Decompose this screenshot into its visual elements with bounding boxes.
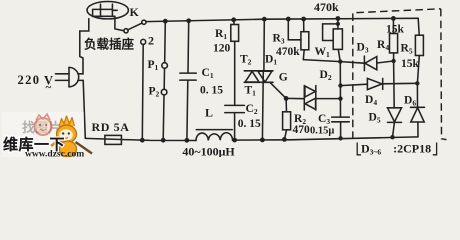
svg-text:0. 15: 0. 15 xyxy=(200,85,223,97)
svg-text:40~100μH: 40~100μH xyxy=(182,145,235,158)
svg-text:负载插座: 负载插座 xyxy=(84,37,135,52)
svg-text:0.15μ: 0.15μ xyxy=(310,126,334,137)
svg-text:470k: 470k xyxy=(314,0,339,14)
svg-text:470: 470 xyxy=(293,124,311,136)
svg-text:G: G xyxy=(279,72,288,84)
svg-text:0. 15: 0. 15 xyxy=(238,118,261,130)
svg-text:220: 220 xyxy=(18,73,41,87)
svg-text:2: 2 xyxy=(148,34,154,48)
svg-text:15k: 15k xyxy=(386,24,405,36)
svg-text:K: K xyxy=(130,5,140,19)
svg-text:RD 5A: RD 5A xyxy=(92,120,130,134)
svg-text:www.dzsc.com: www.dzsc.com xyxy=(25,150,84,158)
svg-text:~: ~ xyxy=(46,82,52,94)
svg-text:L: L xyxy=(205,106,213,120)
svg-text:15k: 15k xyxy=(401,58,420,70)
svg-text:120: 120 xyxy=(213,43,231,55)
svg-text:470k: 470k xyxy=(276,46,300,58)
